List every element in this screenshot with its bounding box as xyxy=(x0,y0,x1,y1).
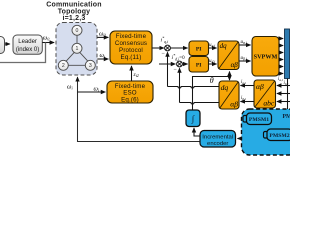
svg-text:dq: dq xyxy=(221,83,229,92)
svg-text:PMSM: PMSM xyxy=(283,114,291,120)
svg-text:i=1,2,3: i=1,2,3 xyxy=(62,15,85,22)
svg-text:PMSM1: PMSM1 xyxy=(249,117,269,123)
svg-text:Fixed-time: Fixed-time xyxy=(116,33,147,40)
svg-text:ωi: ωi xyxy=(67,84,73,91)
svg-text:Eq.(11): Eq.(11) xyxy=(121,54,142,61)
svg-text:0: 0 xyxy=(76,28,79,34)
svg-text:αβ: αβ xyxy=(231,61,239,69)
svg-text:−: − xyxy=(174,67,178,73)
svg-text:ia,i: ia,i xyxy=(278,77,283,83)
svg-text:dq: dq xyxy=(220,42,228,50)
svg-text:ωj: ωj xyxy=(100,52,106,59)
svg-text:encoder: encoder xyxy=(207,141,228,147)
svg-text:Leader: Leader xyxy=(18,39,37,45)
svg-text:θ: θ xyxy=(210,76,214,85)
svg-text:zi2: zi2 xyxy=(133,72,139,78)
svg-text:ω0: ω0 xyxy=(99,30,106,37)
svg-text:Eq.(6): Eq.(6) xyxy=(121,96,139,103)
svg-text:i*q,i: i*q,i xyxy=(161,36,169,45)
svg-text:Protocol: Protocol xyxy=(119,47,143,54)
svg-text:PMSM2: PMSM2 xyxy=(269,133,289,139)
svg-text:2: 2 xyxy=(62,63,65,69)
svg-text:SVPWM: SVPWM xyxy=(254,53,278,60)
svg-text:3: 3 xyxy=(89,63,92,69)
svg-text:PI: PI xyxy=(196,62,202,68)
svg-text:Incremental: Incremental xyxy=(202,134,233,140)
svg-text:ωi: ωi xyxy=(94,86,100,93)
svg-text:αβ: αβ xyxy=(256,82,264,91)
svg-text:Consensus: Consensus xyxy=(115,40,147,47)
svg-text:abc: abc xyxy=(263,99,275,108)
svg-text:−: − xyxy=(162,51,166,57)
svg-text:i*d,i=0: i*d,i=0 xyxy=(172,53,186,62)
svg-text:PI: PI xyxy=(196,46,202,52)
svg-text:(index 0): (index 0) xyxy=(16,47,39,53)
svg-text:ω0: ω0 xyxy=(43,35,50,42)
svg-text:αβ: αβ xyxy=(230,99,238,108)
svg-text:1: 1 xyxy=(76,46,79,52)
